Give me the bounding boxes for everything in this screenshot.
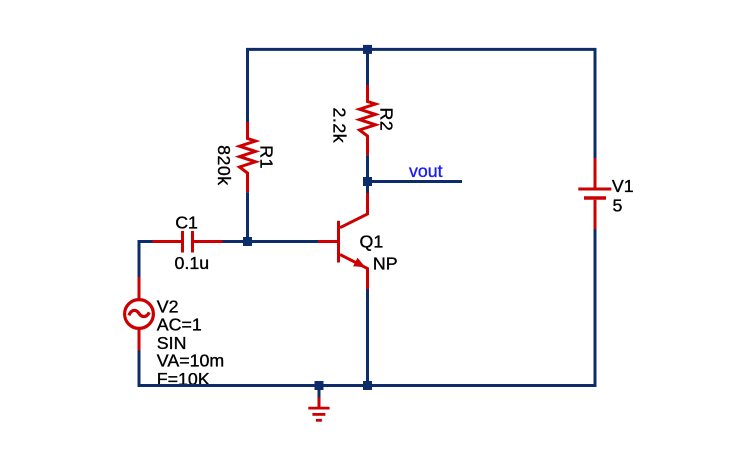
resistor R1 820k	[240, 122, 256, 192]
svg-text:V2: V2	[157, 297, 179, 317]
base stub (red)	[318, 240, 337, 243]
capacitor C1 0.1u	[153, 231, 223, 253]
svg-text:NP: NP	[373, 254, 398, 274]
node: C1/R1/base junction	[243, 237, 252, 246]
V2 top red lead	[138, 277, 141, 299]
V2 circle	[125, 300, 154, 329]
ground bar 1	[308, 407, 329, 410]
wire: ground stub (navy)	[318, 386, 321, 398]
wire: vout stub to the right	[368, 180, 463, 183]
wire: base wire junction to Q1 (navy part)	[248, 240, 319, 243]
svg-text:V1: V1	[612, 176, 634, 196]
V1 long plate	[578, 188, 611, 191]
node: vout junction	[363, 177, 372, 186]
wire: R2 lower lead (navy)	[366, 155, 369, 181]
wire: R2 upper lead (navy)	[366, 49, 369, 85]
C1 left red lead	[153, 240, 182, 243]
svg-text:Q1: Q1	[360, 232, 384, 252]
ground red stem	[318, 398, 321, 408]
base bar	[337, 221, 340, 263]
V1 bottom red lead	[594, 200, 597, 229]
wire: top rail from R1 corner to V1 corner	[248, 49, 596, 158]
source V2 sine	[125, 277, 154, 351]
ground bar 3	[316, 419, 322, 422]
wire: C1 right lead navy	[223, 240, 248, 243]
svg-text:R1: R1	[257, 145, 277, 169]
emitter lead (red)	[340, 255, 368, 290]
wire: collector stub (navy)	[366, 182, 369, 194]
svg-text:C1: C1	[175, 213, 198, 233]
V1 top red lead	[594, 158, 597, 188]
battery V1	[578, 158, 611, 229]
V1 short plate	[584, 196, 606, 200]
svg-text:2.2k: 2.2k	[330, 108, 350, 144]
svg-text:AC=1: AC=1	[157, 315, 202, 335]
svg-text:0.1u: 0.1u	[175, 253, 210, 273]
svg-text:5: 5	[613, 196, 623, 216]
wire: R1 lower lead to base junction (navy)	[246, 192, 249, 241]
wire: bottom rail from V2 through ground/emitter nodes up to V1 (navy)	[139, 229, 595, 386]
V2 sine glyph	[129, 310, 149, 316]
node: ground junction	[315, 381, 324, 390]
C1 left plate	[181, 231, 184, 253]
C1 right plate	[191, 231, 194, 253]
svg-text:vout: vout	[409, 161, 443, 181]
emitter arrowhead	[353, 258, 365, 268]
V2 bottom red lead	[138, 329, 141, 351]
node: top junction R2 to rail	[363, 45, 372, 54]
ground symbol	[308, 398, 329, 421]
transistor Q1 NPN	[318, 193, 368, 289]
wire: emitter down to bottom rail (navy)	[366, 289, 369, 386]
wire: left column corner to V2 (navy)	[139, 242, 153, 278]
ground bar 2	[312, 413, 325, 416]
svg-text:R2: R2	[377, 108, 397, 132]
C1 right red lead	[194, 240, 223, 243]
resistor R2 2.2k	[360, 85, 376, 155]
collector lead (red)	[340, 193, 368, 228]
svg-text:820k: 820k	[214, 145, 234, 186]
svg-text:VA=10m: VA=10m	[157, 351, 224, 371]
node: emitter to bottom rail junction	[363, 381, 372, 390]
